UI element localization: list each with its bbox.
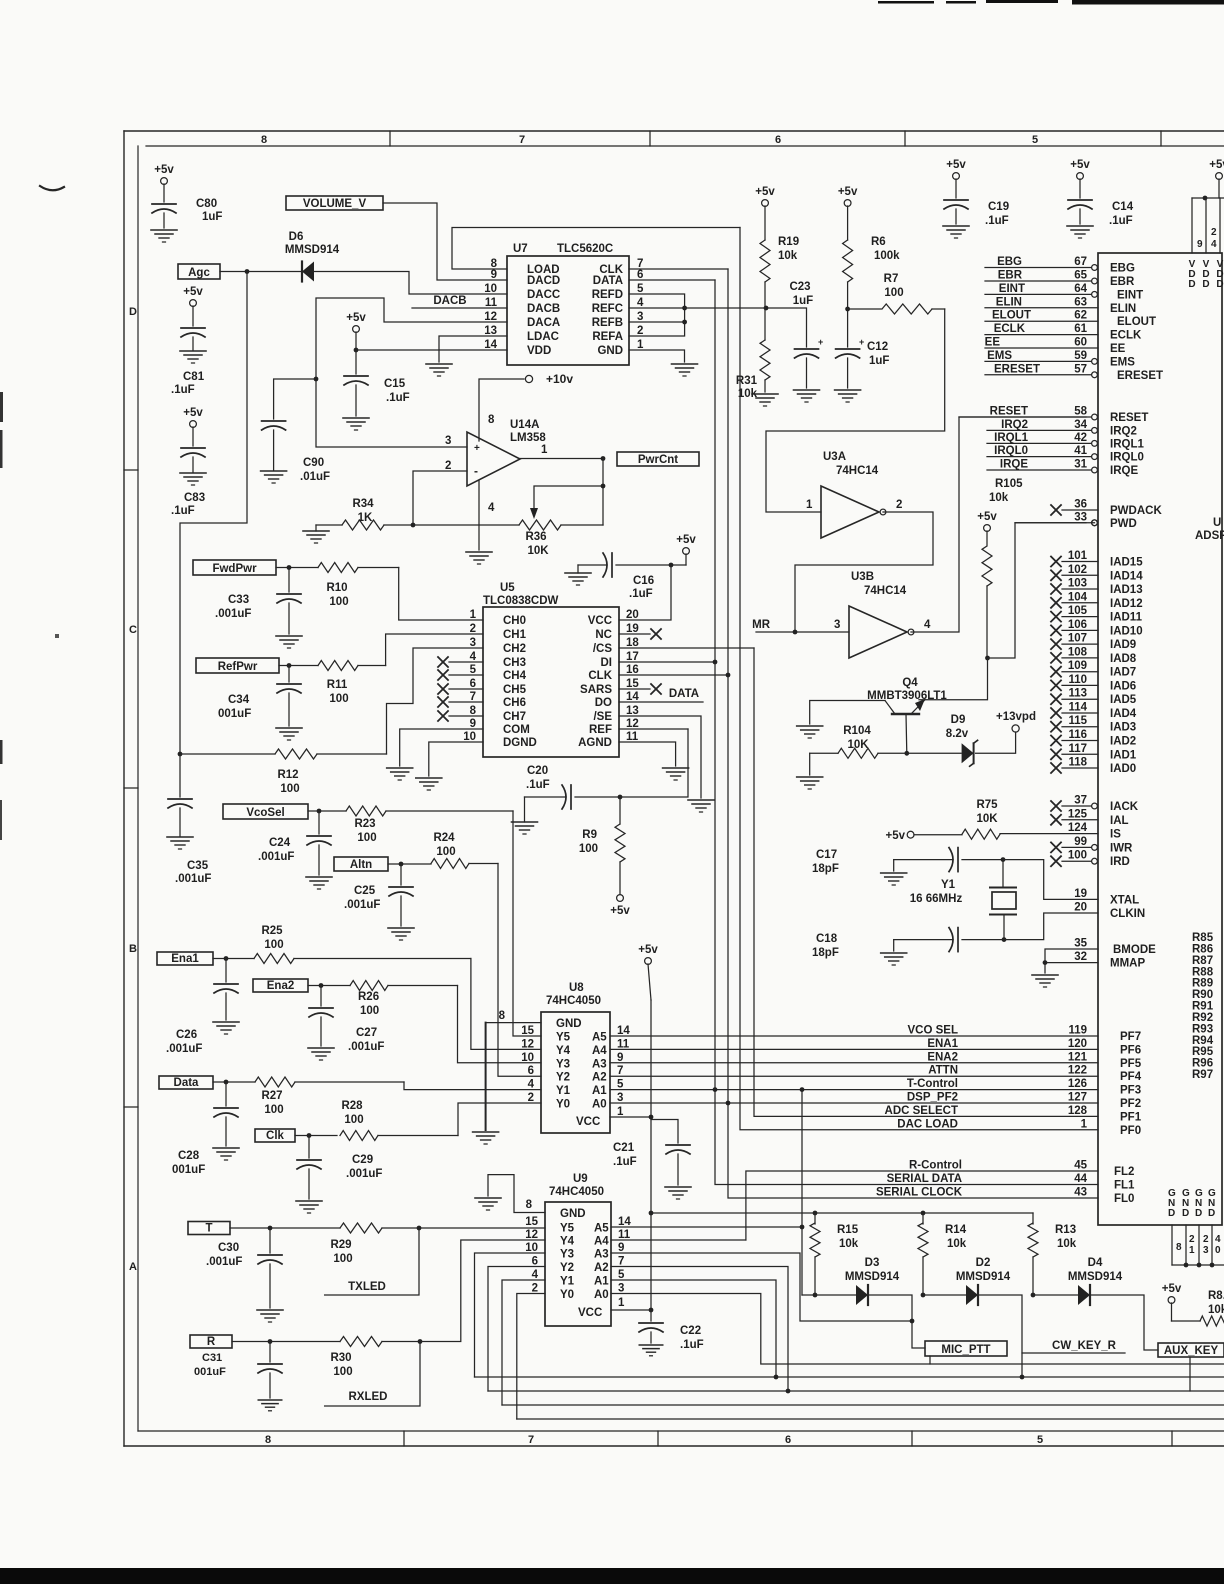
svg-text:33: 33 (1074, 511, 1087, 523)
svg-text:18: 18 (626, 637, 639, 649)
capacitor C20 .1uF (525, 765, 621, 809)
svg-text:ECLK: ECLK (994, 323, 1026, 335)
svg-text:+5v: +5v (183, 407, 203, 419)
svg-text:1: 1 (470, 609, 477, 621)
svg-text:126: 126 (1068, 1078, 1087, 1090)
svg-text:PF7: PF7 (1120, 1031, 1141, 1043)
svg-text:100: 100 (360, 1005, 379, 1017)
power +5v C19 (946, 159, 966, 198)
wire D6 to U7 pin10 DACC (314, 272, 507, 295)
DSP right column R85-R97 (1192, 932, 1214, 1081)
svg-text:10: 10 (463, 731, 476, 743)
junction bus DATA TControl (713, 1087, 718, 1092)
svg-text:8: 8 (265, 1434, 271, 1446)
svg-text:1: 1 (1189, 1245, 1195, 1256)
svg-text:R75: R75 (976, 799, 998, 811)
svg-text:16: 16 (626, 664, 639, 676)
power +5v R75 (885, 830, 914, 842)
svg-text:TLC0838CDW: TLC0838CDW (483, 595, 559, 607)
ground C24 (306, 877, 332, 889)
svg-text:+5v: +5v (154, 164, 174, 176)
svg-text:IAD5: IAD5 (1110, 694, 1137, 706)
capacitor C33 .001uF (215, 568, 301, 635)
junction A3 MIC tap (910, 1319, 915, 1324)
svg-text:2: 2 (532, 1283, 538, 1295)
resistor R23 100 (346, 806, 513, 844)
svg-text:MMSD914: MMSD914 (285, 244, 340, 256)
svg-text:C35: C35 (187, 860, 209, 872)
svg-text:EBG: EBG (997, 256, 1022, 268)
capacitor C26 .001uF (166, 959, 238, 1056)
capacitor C15 .1uF (344, 350, 410, 416)
x noconnect U5 row 662 (438, 657, 483, 667)
ground DGND (416, 778, 442, 790)
svg-text:Agc: Agc (188, 267, 210, 279)
svg-text:.001uF: .001uF (348, 1041, 384, 1053)
svg-text:GND: GND (556, 1018, 582, 1030)
DSP pins IAD15-IAD0 (1051, 550, 1143, 775)
junction RefPwr (287, 663, 292, 668)
svg-text:ELIN: ELIN (996, 296, 1022, 308)
junction TXLED (417, 1226, 422, 1231)
wire feedback down (602, 459, 604, 526)
svg-text:D: D (1168, 1208, 1175, 1219)
svg-text:ADSP2: ADSP2 (1195, 530, 1224, 542)
net label VOLUME_V (286, 196, 383, 210)
svg-text:6: 6 (528, 1065, 534, 1077)
capacitor C21 .1uF (613, 1142, 690, 1185)
DSP pins FL2 FL1 FL0 (876, 1160, 1135, 1206)
svg-text:D9: D9 (951, 714, 966, 726)
svg-text:A1: A1 (594, 1276, 609, 1288)
x noconnect U5 row 702 (438, 697, 483, 707)
svg-text:Y4: Y4 (556, 1045, 571, 1057)
svg-text:.001uF: .001uF (175, 873, 211, 885)
net label Data (159, 1076, 213, 1089)
svg-text:PF0: PF0 (1120, 1125, 1141, 1137)
svg-text:+5v: +5v (610, 905, 630, 917)
svg-text:IRQL1: IRQL1 (1110, 438, 1144, 450)
svg-text:34: 34 (1074, 419, 1087, 431)
svg-text:Altn: Altn (350, 859, 372, 871)
net label Ena1 (157, 952, 213, 965)
svg-text:CH0: CH0 (503, 615, 526, 627)
svg-text:+13vpd: +13vpd (996, 711, 1036, 723)
resistor R34 1K (316, 498, 413, 530)
wire U7 pin1 GND (629, 350, 685, 362)
svg-text:R12: R12 (277, 769, 298, 781)
svg-text:58: 58 (1074, 406, 1087, 418)
svg-text:12: 12 (521, 1038, 534, 1050)
svg-text:IAD11: IAD11 (1110, 612, 1143, 624)
svg-text:10k: 10k (839, 1238, 859, 1250)
svg-text:PWD: PWD (1110, 518, 1137, 530)
svg-text:001uF: 001uF (218, 708, 251, 720)
ground C80 (151, 230, 177, 242)
svg-text:A4: A4 (592, 1045, 607, 1057)
power +5v C83 (183, 407, 203, 446)
svg-text:C29: C29 (352, 1154, 373, 1166)
capacitor C12 1uF (836, 337, 890, 388)
net label PwrCnt (617, 452, 699, 466)
svg-text:R28: R28 (341, 1100, 363, 1112)
svg-text:IRQ2: IRQ2 (1110, 425, 1137, 437)
svg-text:Y5: Y5 (556, 1032, 571, 1044)
svg-text:C80: C80 (196, 198, 217, 210)
svg-text:CH7: CH7 (503, 711, 526, 723)
svg-text:ADC SELECT: ADC SELECT (885, 1105, 958, 1117)
svg-text:.1uF: .1uF (1109, 215, 1133, 227)
ground COM (387, 768, 413, 780)
crystal Y1 16.66MHz (910, 860, 1016, 940)
svg-text:6: 6 (470, 678, 476, 690)
wire C21 tap (651, 1120, 678, 1144)
svg-text:C17: C17 (816, 849, 837, 861)
resistor R15 10k (810, 1213, 859, 1295)
svg-text:DO: DO (595, 697, 612, 709)
svg-text:R97: R97 (1192, 1069, 1213, 1081)
net CW_KEY_R (1022, 1340, 1125, 1353)
wire Agc (220, 271, 301, 273)
page border frame (124, 131, 1224, 1446)
svg-text:C15: C15 (384, 378, 406, 390)
capacitor C24 .001uF (258, 811, 331, 875)
svg-text:A: A (129, 1261, 137, 1273)
svg-text:Q4: Q4 (902, 677, 918, 689)
svg-text:PwrCnt: PwrCnt (638, 454, 678, 466)
svg-text:A3: A3 (592, 1058, 607, 1070)
svg-text:5: 5 (637, 283, 644, 295)
svg-text:108: 108 (1068, 646, 1088, 658)
svg-text:001uF: 001uF (194, 1366, 226, 1378)
svg-text:8: 8 (488, 414, 495, 426)
svg-text:100: 100 (344, 1114, 363, 1126)
svg-text:60: 60 (1074, 337, 1087, 349)
ground opamp pin4 (466, 552, 492, 564)
svg-text:2: 2 (470, 623, 476, 635)
capacitor C23 1uF (789, 281, 823, 388)
svg-text:VCC: VCC (578, 1307, 602, 1319)
svg-text:D: D (1188, 279, 1195, 290)
svg-text:BMODE: BMODE (1113, 944, 1156, 956)
net label Clk (255, 1129, 295, 1142)
svg-text:19: 19 (626, 623, 639, 635)
wire U5 /CS pin18 to bus (619, 647, 754, 649)
svg-text:R25: R25 (261, 925, 283, 937)
wire PWD route (988, 523, 1087, 658)
svg-text:R92: R92 (1192, 1012, 1213, 1024)
svg-text:.001uF: .001uF (344, 899, 380, 911)
svg-text:99: 99 (1074, 836, 1087, 848)
ground C35 (167, 837, 193, 849)
ground U9 (475, 1198, 501, 1210)
junction T (268, 1226, 273, 1231)
svg-text:DATA: DATA (593, 275, 623, 287)
ground C18 (881, 953, 907, 965)
capacitor C35 .001uF (168, 754, 211, 885)
svg-text:100k: 100k (874, 250, 900, 262)
svg-text:5: 5 (618, 1269, 625, 1281)
net label Ena2 (253, 979, 308, 992)
wire U8 row 1036 to DSP (610, 1035, 1098, 1037)
svg-text:EMS: EMS (1110, 356, 1135, 368)
resistor R31 10k (736, 308, 770, 400)
wire U9 Y2 to bottom row (488, 1267, 545, 1392)
svg-text:FL0: FL0 (1114, 1193, 1134, 1205)
net label AUX_KEY (1158, 1343, 1224, 1357)
ground BMODE MMAP (1032, 975, 1058, 987)
svg-text:C30: C30 (218, 1242, 239, 1254)
svg-text:1uF: 1uF (869, 355, 889, 367)
wire D3 anode (802, 1294, 856, 1296)
svg-text:IS: IS (1110, 829, 1121, 841)
svg-text:9: 9 (470, 718, 476, 730)
svg-text:D: D (1216, 279, 1223, 290)
ground /SE (688, 800, 714, 812)
svg-text:IRQL0: IRQL0 (994, 445, 1028, 457)
svg-text:.01uF: .01uF (300, 471, 330, 483)
ground C83 (180, 473, 206, 485)
svg-text:41: 41 (1074, 445, 1087, 457)
svg-text:100: 100 (436, 846, 455, 858)
resistor R30 100 (330, 1337, 420, 1379)
svg-text:LM358: LM358 (510, 432, 546, 444)
wire U5 REF pin12 (619, 728, 688, 730)
svg-text:C24: C24 (269, 837, 291, 849)
svg-text:3: 3 (445, 435, 451, 447)
svg-text:IRQL1: IRQL1 (994, 432, 1028, 444)
svg-text:R93: R93 (1192, 1023, 1213, 1035)
svg-text:AUX_KEY: AUX_KEY (1164, 1345, 1219, 1357)
svg-text:Clk: Clk (266, 1130, 285, 1142)
net label T (188, 1222, 230, 1235)
power +5v C14 (1070, 159, 1090, 198)
wire VcoSel (308, 810, 346, 812)
svg-text:AGND: AGND (578, 737, 612, 749)
svg-text:MMSD914: MMSD914 (1068, 1271, 1123, 1283)
svg-text:CH4: CH4 (503, 670, 527, 682)
wire U3A out to U3B in (795, 512, 933, 632)
wire U7 pin13 LDAC to ground (439, 336, 507, 362)
svg-text:113: 113 (1068, 688, 1087, 700)
svg-text:IRD: IRD (1110, 856, 1130, 868)
svg-text:10: 10 (484, 283, 497, 295)
svg-text:101: 101 (1068, 550, 1088, 562)
svg-text:10k: 10k (1208, 1304, 1224, 1316)
ground C28 (213, 1148, 239, 1160)
svg-text:CH2: CH2 (503, 643, 526, 655)
wire U7 pin4 REFC (629, 307, 685, 309)
svg-text:7: 7 (618, 1256, 624, 1268)
wire bottom row D (502, 1404, 1224, 1406)
junction Ena1 (224, 956, 229, 961)
svg-text:.1uF: .1uF (386, 392, 410, 404)
wire MMAP (1045, 962, 1098, 964)
svg-text:74HC4050: 74HC4050 (546, 995, 601, 1007)
wire Ena2 (308, 985, 350, 987)
wire C18 gnd stem (893, 940, 895, 951)
svg-text:ELOUT: ELOUT (992, 310, 1031, 322)
net label DACB pin11 (433, 295, 466, 307)
power +5v R6 (838, 186, 858, 240)
svg-text:8.2v: 8.2v (946, 728, 969, 740)
ground AGND (663, 768, 689, 780)
wire C17 gnd stem (893, 860, 895, 871)
net label MIC_PTT (925, 1341, 1007, 1356)
svg-text:R87: R87 (1192, 955, 1213, 967)
x noconnect U5 SARS pin15 (619, 684, 661, 694)
ground C14 (1067, 226, 1093, 238)
junction R19 bottom (764, 306, 769, 311)
svg-text:A0: A0 (592, 1099, 607, 1111)
wire U8 row 1049.4 to DSP (610, 1048, 1098, 1050)
svg-text:EMS: EMS (987, 350, 1012, 362)
svg-text:R34: R34 (352, 498, 374, 510)
wire D2 cathode CW key (978, 1295, 1022, 1377)
svg-text:6: 6 (637, 269, 643, 281)
svg-text:VDD: VDD (527, 345, 551, 357)
svg-text:Y2: Y2 (560, 1262, 574, 1274)
svg-text:.1uF: .1uF (629, 588, 653, 600)
svg-text:Data: Data (174, 1077, 200, 1089)
svg-text:10k: 10k (989, 492, 1009, 504)
svg-text:C22: C22 (680, 1325, 701, 1337)
svg-text:1: 1 (637, 339, 644, 351)
svg-text:5: 5 (470, 664, 477, 676)
svg-text:R104: R104 (843, 725, 871, 737)
wire R28 to U8 Y0 (458, 1103, 541, 1136)
svg-text:R27: R27 (261, 1090, 282, 1102)
wire bus CLK (728, 269, 1098, 1198)
DSP IC U ADSP2 outline (1098, 253, 1222, 1225)
svg-text:Y3: Y3 (560, 1249, 574, 1261)
svg-text:ATTN: ATTN (928, 1065, 958, 1077)
buffer IC U8 74HC4050 (499, 982, 631, 1133)
svg-text:IAD0: IAD0 (1110, 763, 1136, 775)
svg-text:+5v: +5v (346, 312, 366, 324)
svg-text:13: 13 (484, 325, 497, 337)
wire Q4 collector (905, 714, 908, 753)
svg-text:.1uF: .1uF (985, 215, 1009, 227)
svg-text:+5v: +5v (1070, 159, 1090, 171)
net label Altn (334, 857, 388, 871)
svg-text:TLC5620C: TLC5620C (557, 243, 613, 255)
DSP pins EBG-ERESET (985, 256, 1163, 382)
svg-text:124: 124 (1068, 822, 1088, 834)
wire vdd drop1 (1191, 198, 1193, 253)
svg-text:DATA: DATA (669, 688, 699, 700)
svg-text:+5v: +5v (183, 286, 203, 298)
svg-text:CH5: CH5 (503, 684, 527, 696)
svg-text:59: 59 (1074, 350, 1087, 362)
junction R15 top (813, 1211, 818, 1216)
svg-text:102: 102 (1068, 564, 1087, 576)
svg-text:EINT: EINT (1117, 289, 1143, 301)
svg-text:4: 4 (1211, 239, 1217, 250)
svg-text:61: 61 (1074, 323, 1087, 335)
junction row C A2 (786, 1389, 791, 1394)
capacitor C83 .1uF (171, 448, 205, 517)
svg-text:17: 17 (626, 651, 639, 663)
svg-text:A3: A3 (594, 1249, 609, 1261)
svg-text:D4: D4 (1088, 1257, 1103, 1269)
svg-text:GND: GND (597, 345, 623, 357)
svg-text:VOLUME_V: VOLUME_V (303, 198, 367, 210)
svg-text:REFD: REFD (592, 289, 623, 301)
svg-text:1uF: 1uF (202, 211, 222, 223)
resistor R6 100k (843, 236, 901, 347)
junction R13 bottom (1031, 1293, 1036, 1298)
ground C15 (343, 418, 369, 430)
wire bottom row C (488, 1390, 1224, 1392)
svg-text:R6: R6 (871, 236, 886, 248)
svg-text:103: 103 (1068, 578, 1087, 590)
svg-text:100: 100 (884, 287, 903, 299)
svg-text:+5v: +5v (977, 511, 997, 523)
ground R31 (752, 394, 778, 406)
svg-text:18pF: 18pF (812, 947, 839, 959)
wire U7 pin12 DACA route (316, 298, 507, 447)
wire U9 A3 (611, 1253, 912, 1321)
svg-text:3: 3 (834, 619, 840, 631)
svg-text:Y0: Y0 (556, 1099, 570, 1111)
svg-text:9: 9 (1197, 239, 1203, 250)
svg-text:0: 0 (1215, 1245, 1221, 1256)
wire Agc node down to left rail (180, 272, 247, 755)
svg-text:C12: C12 (867, 341, 888, 353)
svg-text:CH1: CH1 (503, 629, 527, 641)
svg-text:PF4: PF4 (1120, 1071, 1142, 1083)
svg-text:10K: 10K (847, 739, 869, 751)
svg-text:74HC4050: 74HC4050 (549, 1186, 604, 1198)
junction R36 wiper node (601, 484, 606, 489)
resistor R26 100 (350, 981, 458, 1018)
svg-text:R11: R11 (327, 679, 348, 691)
svg-text:U8: U8 (569, 982, 584, 994)
svg-text:4: 4 (637, 297, 644, 309)
svg-text:R9: R9 (582, 829, 597, 841)
svg-text:110: 110 (1068, 674, 1087, 686)
svg-text:D: D (1202, 279, 1209, 290)
capacitor C14 .1uF (1068, 200, 1134, 227)
wire opamp pin2 (413, 471, 467, 525)
wire Data (213, 1081, 255, 1083)
wire MR input (756, 631, 849, 633)
svg-text:ELIN: ELIN (1110, 303, 1136, 315)
svg-text:62: 62 (1074, 310, 1087, 322)
resistor R11 100 (318, 661, 386, 706)
resistor R75 10K (914, 799, 1098, 839)
svg-text:A5: A5 (592, 1032, 607, 1044)
svg-text:C28: C28 (178, 1150, 200, 1162)
junction bmode mmap (1043, 960, 1048, 965)
svg-text:15: 15 (521, 1025, 534, 1037)
junction DACA C90 tap (314, 377, 319, 382)
svg-text:U3A: U3A (823, 451, 846, 463)
svg-text:4: 4 (1215, 1234, 1221, 1245)
x noconnect U5 row 675 (438, 670, 483, 680)
svg-text:105: 105 (1068, 605, 1088, 617)
ground C30 (257, 1310, 283, 1322)
svg-text:9: 9 (617, 1052, 623, 1064)
svg-text:A2: A2 (592, 1072, 607, 1084)
power +5v C80 (154, 164, 174, 202)
DSP GND bottom pins (1168, 1188, 1224, 1267)
svg-text:R36: R36 (525, 531, 546, 543)
svg-text:IAD6: IAD6 (1110, 680, 1136, 692)
svg-text:R23: R23 (354, 818, 375, 830)
wire vdd drop2 (1205, 198, 1207, 253)
